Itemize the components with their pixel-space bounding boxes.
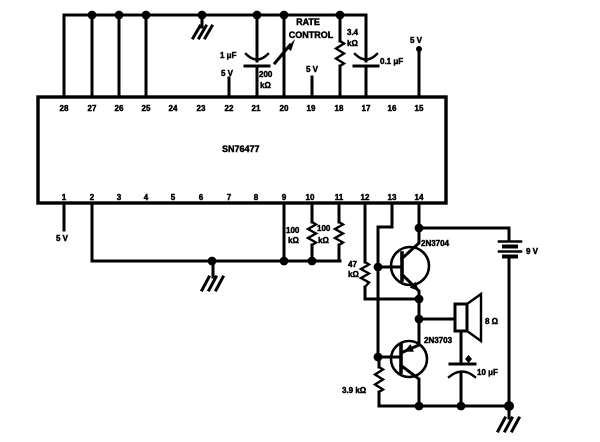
svg-text:21: 21 [252,104,261,113]
wire bottom ground rail [379,405,509,408]
node junction bus pin25 [142,11,151,20]
svg-text:26: 26 [115,104,124,113]
svg-text:kΩ: kΩ [288,236,299,245]
pin 26 [115,104,124,113]
capacitor C3 10 uF electrolytic [449,331,498,406]
node junction rail pin10 [308,257,317,266]
node junction bus pin18 [336,11,345,20]
terminal 5 V at pin 22 [221,69,234,96]
svg-text:27: 27 [88,104,97,113]
svg-text:CONTROL: CONTROL [289,30,334,40]
node junction Q1 emitter [415,295,424,304]
pin 27 [88,104,97,113]
svg-text:28: 28 [60,104,69,113]
svg-text:13: 13 [388,193,397,202]
svg-text:4: 4 [144,193,149,202]
svg-text:16: 16 [388,104,397,113]
resistor R4 100 kOhm (pin 11) [317,204,343,261]
pin 19 [307,104,316,113]
svg-text:10: 10 [306,193,315,202]
svg-text:25: 25 [142,104,151,113]
pin 21 [252,104,261,113]
transistor Q2 2N3703 [391,336,453,406]
wire speaker tap to Q2 emitter [418,319,421,345]
pin 7 [227,193,232,202]
pin 13 [388,193,397,202]
pin 15 [415,104,424,113]
svg-text:kΩ: kΩ [348,270,359,279]
IC U1 SN76477 [38,97,446,203]
wire pin 26 to bus [118,15,121,96]
speaker LS1 8 Ohm [455,294,499,341]
svg-text:20: 20 [280,104,289,113]
pin 24 [169,104,178,113]
svg-text:10 μF: 10 μF [477,368,498,377]
pin 5 [171,193,176,202]
wire top ground bus [64,15,366,96]
pin 23 [197,104,206,113]
pin 16 [388,104,397,113]
wire pin 9 to rail [283,204,286,261]
capacitor C2 0.1 uF (pin 17) [354,15,403,96]
capacitor C1 1 uF (pin 21) [220,15,269,96]
svg-text:24: 24 [169,104,178,113]
svg-text:15: 15 [415,104,424,113]
svg-text:5 V: 5 V [410,36,423,45]
wire pin 25 to bus [145,15,148,96]
wire pin 27 to bus [91,15,94,96]
svg-text:5 V: 5 V [306,65,319,74]
svg-text:6: 6 [199,193,204,202]
node junction speaker tap [415,315,424,324]
svg-text:2N3704: 2N3704 [421,239,450,248]
svg-text:23: 23 [197,104,206,113]
pin 3 [117,193,122,202]
svg-text:9: 9 [282,193,287,202]
pin 8 [254,193,259,202]
svg-text:5: 5 [171,193,176,202]
resistor R5 47 kOhm (pin 12) [348,204,369,299]
wire Q2 base [378,356,401,359]
pin 10 [306,193,315,202]
transistor Q1 2N3704 [391,228,450,299]
svg-text:8 Ω: 8 Ω [485,317,499,326]
pin 22 [225,104,234,113]
resistor R2 3.4 kOhm (pin 18) [336,15,359,96]
potentiometer R1 200 kOhm RATE CONTROL (pin 20) [259,15,334,96]
wire pin 2 to ground rail [92,204,340,261]
wire pin 14 node to battery [419,227,509,230]
pin 25 [142,104,151,113]
svg-text:19: 19 [307,104,316,113]
node junction rail ground [208,257,217,266]
svg-text:200: 200 [259,70,273,79]
pin 18 [335,104,344,113]
pin 20 [280,104,289,113]
node junction rail Q2 collector [415,402,424,411]
svg-text:1: 1 [62,193,67,202]
svg-text:100: 100 [286,226,300,235]
wire pin 13 to base line [378,204,392,227]
svg-text:9 V: 9 V [526,247,539,256]
wire 47k to emitter node [365,298,419,301]
terminal 5 V at pin 19 [306,65,319,96]
node junction bus ground tap [198,11,207,20]
svg-text:7: 7 [227,193,232,202]
terminal 5 V at pin 1 [56,204,69,243]
ground at battery [498,406,519,431]
battery BT1 9 V [499,228,539,406]
svg-text:SN76477: SN76477 [222,144,260,154]
wire emitter to speaker tap [418,299,421,319]
pin 1 [62,193,67,202]
svg-text:2N3703: 2N3703 [424,336,453,345]
svg-text:1 μF: 1 μF [220,51,237,60]
resistor R3 100 kOhm (pin 10) [286,204,316,261]
svg-text:kΩ: kΩ [318,236,329,245]
svg-text:3: 3 [117,193,122,202]
node junction bus pin20 [280,11,289,20]
svg-text:3.4: 3.4 [347,28,359,37]
wire base column [377,227,380,357]
pin 6 [199,193,204,202]
node junction rail battery [504,401,514,411]
svg-text:5 V: 5 V [56,234,69,243]
svg-text:11: 11 [335,193,344,202]
node junction bus pin27 [88,11,97,20]
svg-text:2: 2 [90,193,95,202]
svg-text:kΩ: kΩ [347,39,358,48]
resistor R6 3.9 kOhm [342,357,383,406]
svg-text:kΩ: kΩ [260,81,271,90]
node junction bus pin21 [253,11,262,20]
ground on bottom rail [202,261,223,290]
pin 28 [60,104,69,113]
pin 12 [361,193,370,202]
node junction rail cap [457,402,466,411]
svg-text:8: 8 [254,193,259,202]
svg-text:17: 17 [362,104,371,113]
ground on top bus [193,15,212,38]
svg-text:12: 12 [361,193,370,202]
pin 4 [144,193,149,202]
terminal 5 V at pin 15 [410,36,423,96]
pin 17 [362,104,371,113]
svg-text:14: 14 [415,193,424,202]
svg-text:5 V: 5 V [221,69,234,78]
svg-text:3.9 kΩ: 3.9 kΩ [342,386,367,395]
svg-text:RATE: RATE [296,17,320,27]
wire Q1 base [378,266,402,269]
pin 14 [415,193,424,202]
svg-text:18: 18 [335,104,344,113]
node junction rail pin9 [280,257,289,266]
node junction Q1 collector [415,224,424,233]
pin 2 [90,193,95,202]
svg-text:22: 22 [225,104,234,113]
wire speaker feed [419,318,455,321]
svg-text:0.1 μF: 0.1 μF [380,57,403,66]
pin 11 [335,193,344,202]
svg-text:47: 47 [348,260,357,269]
svg-text:100: 100 [317,224,331,233]
node junction bus pin26 [115,11,124,20]
node junction Q2 base [374,353,383,362]
wire pin 14 to collector node [418,204,421,228]
pin 9 [282,193,287,202]
node junction Q1 base [374,263,383,272]
